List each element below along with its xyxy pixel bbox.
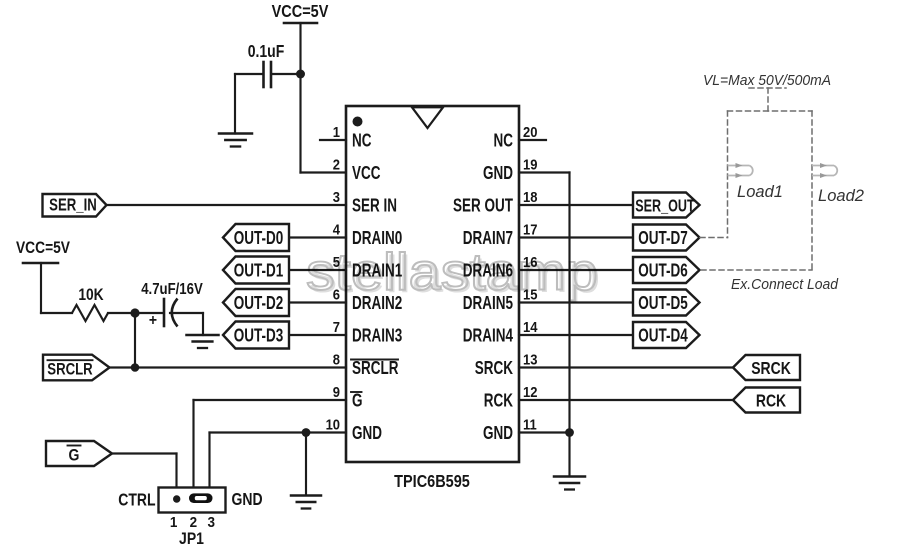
svg-text:G: G: [352, 391, 362, 412]
svg-text:SRCK: SRCK: [751, 358, 791, 378]
svg-text:OUT-D5: OUT-D5: [638, 293, 687, 314]
svg-text:stellastamp: stellastamp: [306, 244, 598, 302]
svg-text:SER_IN: SER_IN: [49, 196, 97, 215]
svg-text:20: 20: [523, 123, 538, 140]
svg-text:17: 17: [523, 221, 538, 238]
svg-text:G: G: [69, 446, 80, 465]
svg-text:NC: NC: [352, 131, 372, 152]
svg-text:0.1uF: 0.1uF: [248, 41, 285, 61]
svg-text:SRCK: SRCK: [475, 358, 513, 379]
svg-text:SRCLR: SRCLR: [47, 360, 92, 379]
svg-text:OUT-D6: OUT-D6: [638, 261, 687, 282]
svg-text:OUT-D7: OUT-D7: [638, 228, 687, 249]
svg-text:GND: GND: [352, 423, 382, 444]
svg-text:CTRL: CTRL: [118, 491, 156, 510]
svg-text:SER_OUT: SER_OUT: [635, 197, 695, 217]
svg-text:14: 14: [523, 318, 538, 335]
svg-text:+: +: [149, 311, 157, 329]
svg-text:4.7uF/16V: 4.7uF/16V: [141, 281, 203, 298]
svg-text:VCC: VCC: [352, 163, 381, 184]
svg-text:DRAIN4: DRAIN4: [463, 326, 513, 347]
svg-text:11: 11: [523, 416, 537, 433]
svg-text:Load2: Load2: [818, 187, 864, 205]
svg-text:10K: 10K: [78, 286, 103, 304]
svg-text:Load1: Load1: [737, 183, 783, 201]
svg-text:12: 12: [523, 383, 538, 400]
svg-text:OUT-D0: OUT-D0: [234, 228, 283, 249]
svg-text:2: 2: [190, 514, 198, 531]
svg-text:TPIC6B595: TPIC6B595: [394, 472, 470, 492]
svg-text:4: 4: [333, 221, 340, 238]
svg-text:OUT-D4: OUT-D4: [638, 326, 687, 347]
svg-text:RCK: RCK: [756, 391, 787, 411]
svg-text:VL=Max 50V/500mA: VL=Max 50V/500mA: [703, 72, 831, 89]
svg-text:VCC=5V: VCC=5V: [272, 2, 329, 22]
svg-text:VCC=5V: VCC=5V: [16, 239, 71, 258]
svg-text:19: 19: [523, 156, 538, 173]
svg-text:GND: GND: [483, 423, 513, 444]
svg-text:7: 7: [333, 318, 340, 335]
svg-text:NC: NC: [493, 131, 513, 152]
svg-text:GND: GND: [232, 491, 263, 510]
svg-text:GND: GND: [483, 163, 513, 184]
svg-text:SRCLR: SRCLR: [352, 358, 399, 379]
svg-text:SER IN: SER IN: [352, 196, 397, 217]
svg-text:OUT-D1: OUT-D1: [234, 261, 283, 282]
svg-text:1: 1: [333, 123, 340, 140]
svg-text:3: 3: [333, 188, 340, 205]
svg-text:2: 2: [333, 156, 340, 173]
svg-text:DRAIN3: DRAIN3: [352, 326, 402, 347]
svg-text:13: 13: [523, 351, 538, 368]
svg-text:SER OUT: SER OUT: [453, 196, 513, 217]
svg-text:OUT-D3: OUT-D3: [234, 326, 283, 347]
svg-text:18: 18: [523, 188, 538, 205]
svg-text:Ex.Connect Load: Ex.Connect Load: [731, 276, 838, 293]
svg-text:9: 9: [333, 383, 340, 400]
svg-text:1: 1: [170, 514, 178, 531]
svg-text:JP1: JP1: [179, 530, 204, 548]
svg-text:10: 10: [326, 416, 341, 433]
svg-text:8: 8: [333, 351, 340, 368]
svg-text:RCK: RCK: [484, 391, 513, 412]
svg-text:OUT-D2: OUT-D2: [234, 293, 283, 314]
svg-text:3: 3: [207, 514, 215, 531]
